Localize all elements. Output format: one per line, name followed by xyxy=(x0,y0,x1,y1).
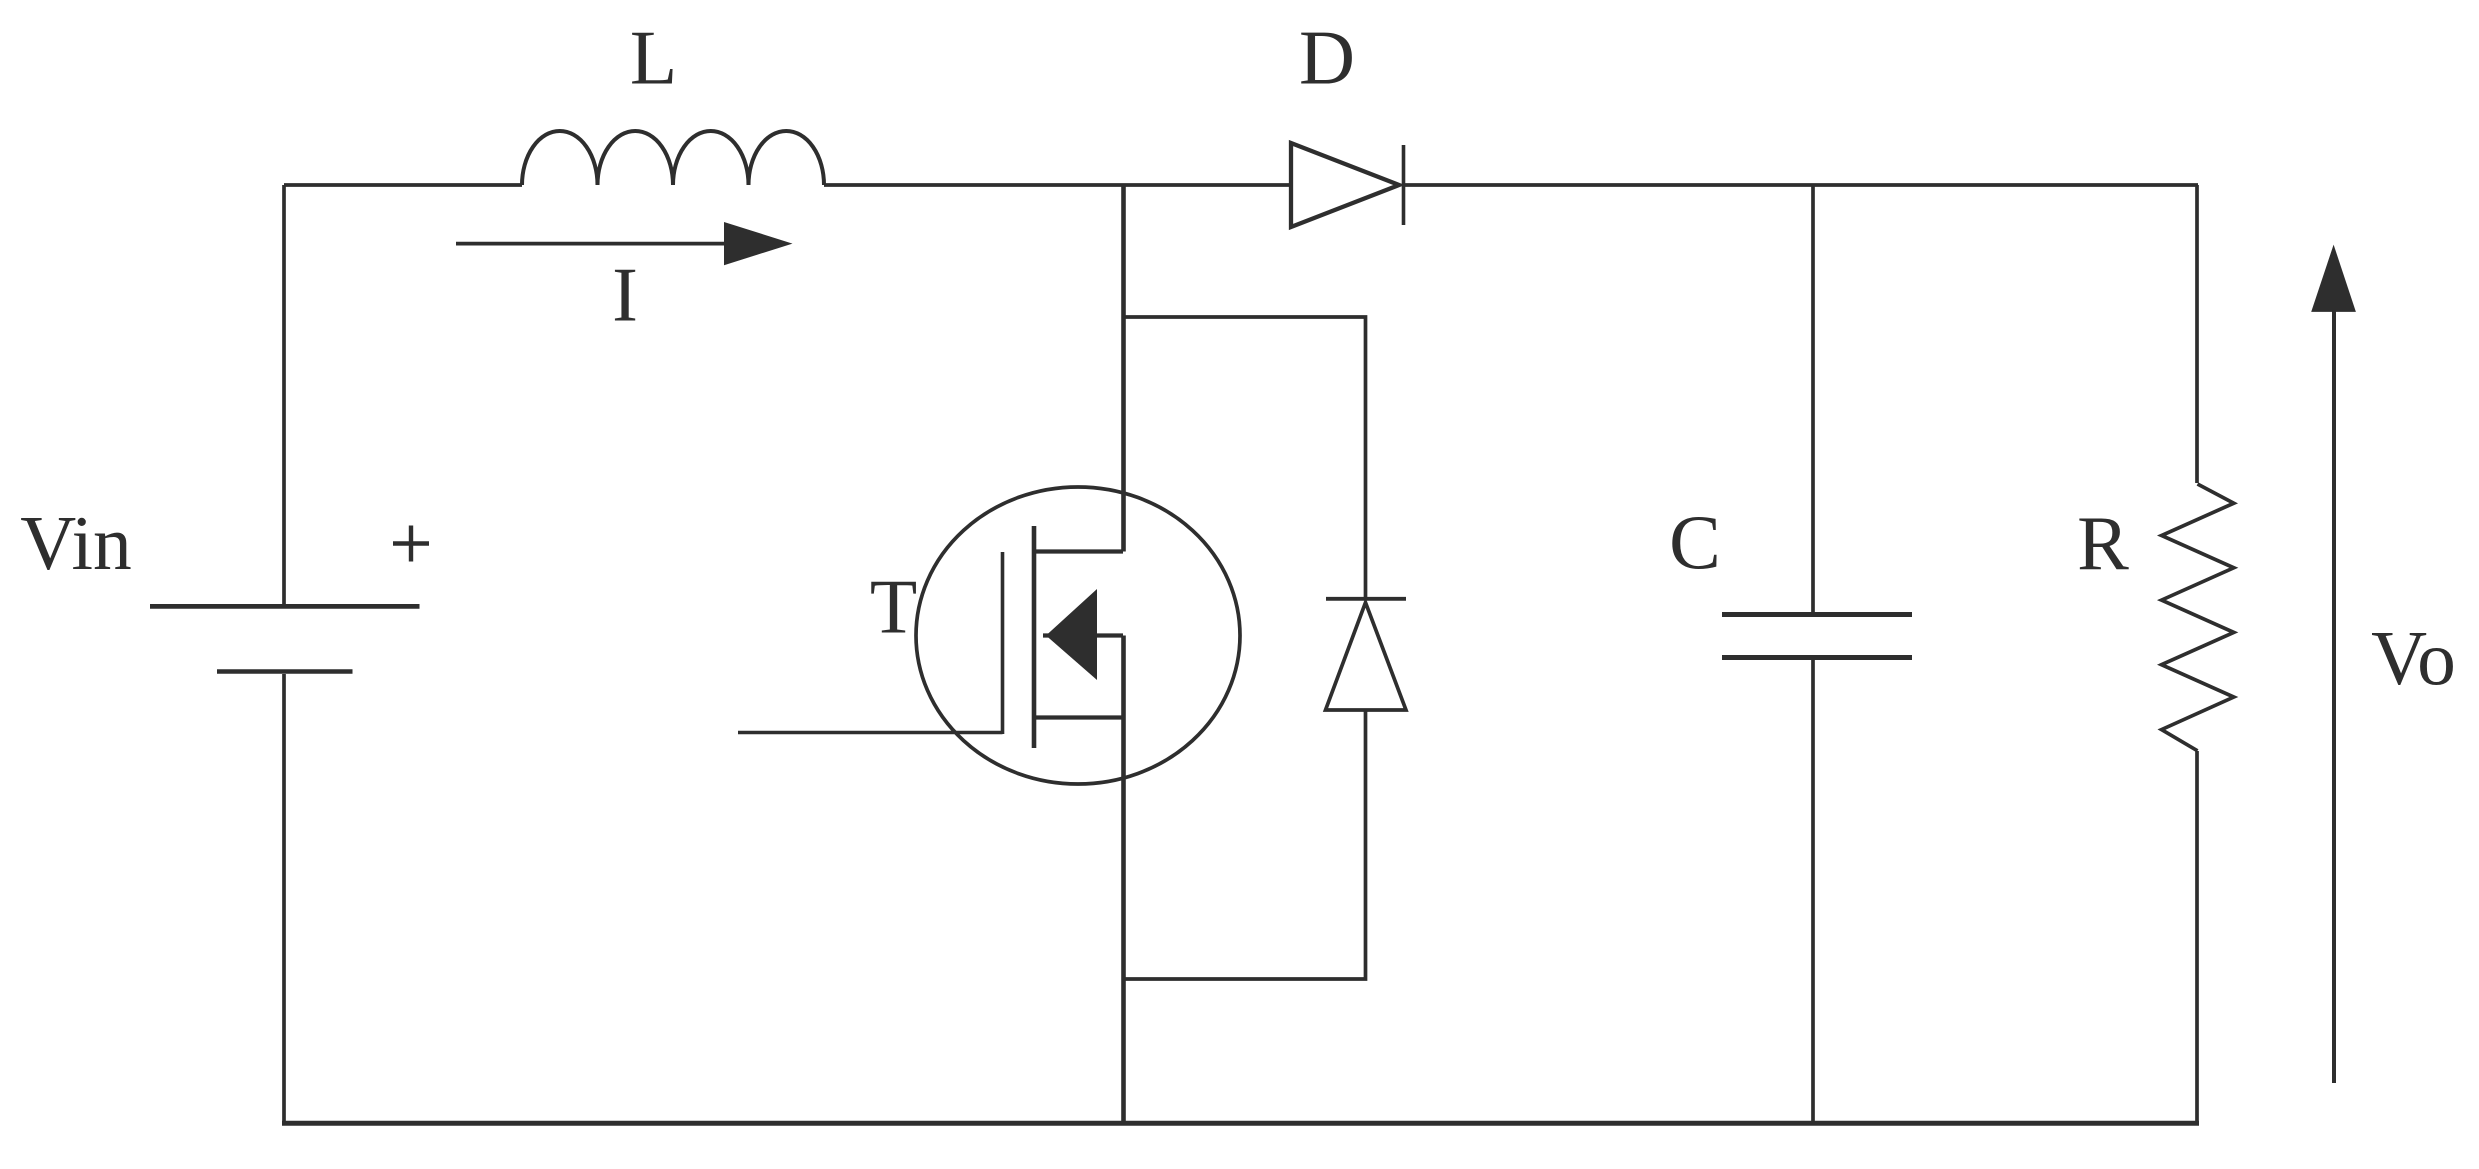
svg-text:D: D xyxy=(1299,15,1355,101)
svg-text:R: R xyxy=(2077,500,2129,586)
svg-text:Vin: Vin xyxy=(20,500,132,586)
svg-text:I: I xyxy=(612,252,638,338)
svg-text:T: T xyxy=(870,564,917,650)
svg-text:C: C xyxy=(1669,499,1721,585)
svg-text:Vo: Vo xyxy=(2371,615,2456,701)
svg-text:L: L xyxy=(630,15,677,101)
